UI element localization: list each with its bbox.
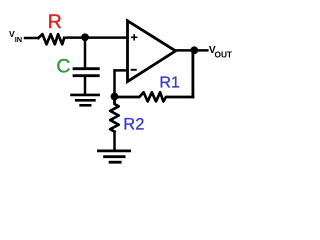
wire op-amp output to V_OUT [176, 49, 208, 52]
node output junction dot [190, 46, 198, 54]
wire R to op-amp + input [64, 36, 127, 39]
svg-text:VOUT: VOUT [209, 45, 232, 60]
wire capacitor to ground [84, 77, 87, 94]
svg-text:R1: R1 [159, 74, 180, 91]
node A junction dot [81, 33, 89, 41]
wire op-amp - input to feedback node [115, 70, 128, 96]
op-amp U1 [128, 21, 176, 82]
resistor R2 [110, 97, 119, 132]
capacitor C [74, 69, 98, 76]
ground (left, below capacitor) [72, 95, 99, 105]
node B junction dot (feedback node) [111, 93, 119, 101]
op-amp + input pin mark [132, 35, 137, 40]
wire node A down to capacitor [84, 38, 87, 68]
resistor R1 [115, 92, 193, 101]
resistor R [38, 34, 64, 44]
svg-text:R2: R2 [123, 115, 144, 133]
svg-text:VIN: VIN [9, 29, 22, 44]
op-amp - input pin mark [132, 69, 136, 71]
wire V_IN to resistor R [25, 37, 38, 40]
ground (bottom, below R2) [99, 151, 130, 162]
wire R2 to ground [113, 132, 116, 150]
svg-text:R: R [48, 11, 62, 33]
svg-text:C: C [56, 55, 70, 77]
wire output node down to R1 [191, 50, 194, 97]
